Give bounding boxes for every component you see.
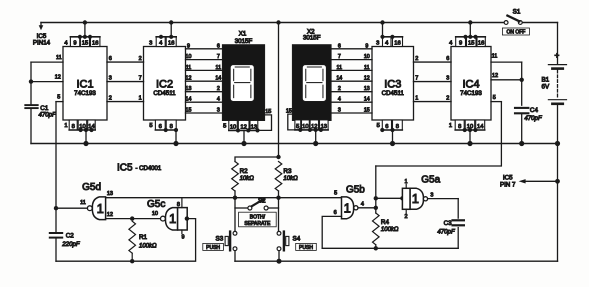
svg-text:G5c: G5c [147,199,165,210]
svg-text:5: 5 [493,95,496,101]
svg-text:IC3: IC3 [384,79,401,91]
svg-text:6: 6 [159,124,162,130]
svg-text:- CD4001: - CD4001 [136,166,162,172]
svg-text:10: 10 [364,54,370,60]
svg-text:3015F: 3015F [235,38,253,45]
svg-text:4: 4 [361,202,364,208]
svg-text:1: 1 [449,123,452,129]
svg-text:9: 9 [187,43,190,49]
svg-text:B1: B1 [541,76,549,83]
svg-text:1: 1 [97,201,104,216]
svg-text:74C193: 74C193 [460,90,482,97]
svg-text:14: 14 [336,76,342,82]
svg-text:6: 6 [385,124,388,130]
svg-text:11: 11 [337,65,343,71]
svg-text:PUSH: PUSH [299,245,313,251]
svg-text:12: 12 [364,76,370,82]
svg-text:2: 2 [415,56,418,62]
svg-text:+: + [554,50,559,60]
svg-text:G5d: G5d [82,182,101,193]
svg-text:9: 9 [73,40,76,46]
svg-text:CD4511: CD4511 [153,90,176,97]
svg-text:5: 5 [57,95,60,101]
svg-text:ON OFF: ON OFF [506,29,525,35]
svg-text:10: 10 [186,54,192,60]
svg-text:11: 11 [216,65,222,71]
svg-text:6: 6 [334,210,337,216]
svg-text:7: 7 [415,76,418,82]
svg-text:12: 12 [55,74,61,80]
svg-text:8: 8 [170,124,173,130]
svg-text:14: 14 [477,124,484,130]
svg-text:3: 3 [338,108,341,114]
svg-text:15: 15 [364,108,370,114]
svg-text:9: 9 [459,40,462,46]
svg-text:470pF: 470pF [437,229,456,236]
svg-text:PIN14: PIN14 [33,39,51,46]
svg-text:1: 1 [169,211,176,226]
svg-text:13: 13 [107,191,113,197]
svg-text:5: 5 [334,191,337,197]
svg-text:10: 10 [152,211,158,217]
svg-text:16: 16 [394,40,400,46]
svg-text:9: 9 [365,43,368,49]
svg-text:4: 4 [217,97,220,103]
svg-text:C2: C2 [66,232,75,239]
svg-text:8: 8 [458,124,461,130]
svg-text:3: 3 [109,76,112,82]
svg-text:13: 13 [186,86,192,92]
svg-text:15: 15 [265,109,271,115]
svg-text:12: 12 [107,212,113,218]
svg-text:2: 2 [139,56,142,62]
svg-text:5: 5 [149,123,152,129]
svg-text:11: 11 [364,65,370,71]
svg-text:15: 15 [286,108,292,114]
svg-text:IC1: IC1 [76,79,93,91]
svg-text:11: 11 [186,65,192,71]
svg-text:12: 12 [186,76,192,82]
svg-text:4: 4 [338,97,341,103]
svg-text:3: 3 [376,41,379,47]
svg-text:15: 15 [82,40,88,46]
svg-text:470pF: 470pF [39,111,58,118]
svg-text:6V: 6V [541,84,550,91]
svg-text:1: 1 [64,123,67,129]
svg-text:5: 5 [223,123,226,129]
svg-text:C4: C4 [530,107,539,114]
svg-text:G5b: G5b [346,184,365,195]
svg-text:16: 16 [92,40,98,46]
svg-text:S2: S2 [258,197,266,204]
svg-text:1: 1 [139,96,142,102]
svg-text:220pF: 220pF [61,241,81,248]
svg-text:S1: S1 [513,8,521,15]
svg-text:8: 8 [396,124,399,130]
svg-text:3: 3 [217,108,220,114]
svg-text:6: 6 [446,56,449,62]
svg-text:2: 2 [404,214,407,220]
svg-text:14: 14 [215,76,221,82]
svg-text:14: 14 [186,97,192,103]
svg-text:S4: S4 [293,236,301,243]
svg-text:100kΩ: 100kΩ [139,243,157,249]
svg-text:10: 10 [302,124,308,130]
svg-text:10kΩ: 10kΩ [240,176,255,182]
svg-text:8: 8 [177,202,180,208]
svg-text:16: 16 [168,40,174,46]
svg-text:R2: R2 [240,168,249,175]
svg-text:3: 3 [446,76,449,82]
svg-text:1: 1 [344,200,351,215]
svg-text:16: 16 [478,40,484,46]
svg-text:2: 2 [338,86,341,92]
svg-text:6: 6 [217,43,220,49]
svg-text:1: 1 [412,191,419,206]
svg-text:X1: X1 [239,31,247,38]
svg-text:PIN 7: PIN 7 [500,181,516,188]
svg-text:7: 7 [217,54,220,60]
svg-text:2: 2 [217,86,220,92]
svg-text:11: 11 [492,54,498,60]
svg-text:10kΩ: 10kΩ [283,176,298,182]
svg-text:13: 13 [364,86,370,92]
svg-text:1: 1 [415,96,418,102]
svg-text:8: 8 [72,124,75,130]
svg-text:S3: S3 [216,236,224,243]
svg-text:14: 14 [364,97,370,103]
svg-text:3: 3 [149,41,152,47]
svg-text:5: 5 [377,123,380,129]
svg-text:R4: R4 [381,219,390,226]
svg-text:2: 2 [446,96,449,102]
svg-text:IC5: IC5 [503,174,513,181]
svg-text:IC4: IC4 [462,79,479,91]
svg-text:2: 2 [109,96,112,102]
svg-text:12: 12 [240,124,246,130]
svg-text:6: 6 [109,56,112,62]
svg-text:15: 15 [186,108,192,114]
svg-text:IC2: IC2 [156,79,173,91]
svg-text:CD4511: CD4511 [382,90,405,97]
svg-text:R3: R3 [283,168,292,175]
svg-text:G5a: G5a [421,174,440,185]
svg-text:100kΩ: 100kΩ [381,227,399,233]
svg-text:7: 7 [139,76,142,82]
svg-text:3015F: 3015F [303,35,321,42]
svg-text:11: 11 [80,200,86,206]
svg-text:6: 6 [338,43,341,49]
svg-text:SEPARATE: SEPARATE [244,221,271,227]
svg-text:7: 7 [338,54,341,60]
svg-text:1: 1 [404,179,407,185]
svg-text:74C193: 74C193 [74,90,96,97]
svg-text:R1: R1 [139,234,148,241]
svg-text:470pF: 470pF [524,115,543,122]
svg-text:IC5: IC5 [117,163,133,174]
svg-text:11: 11 [56,55,62,61]
svg-text:C3: C3 [444,220,453,227]
svg-text:9: 9 [181,235,184,241]
svg-text:10: 10 [230,124,236,130]
svg-text:15: 15 [468,40,474,46]
svg-text:PUSH: PUSH [206,245,220,251]
svg-text:3: 3 [430,193,433,199]
svg-text:BOTH/: BOTH/ [250,214,266,220]
svg-text:12: 12 [492,73,498,79]
